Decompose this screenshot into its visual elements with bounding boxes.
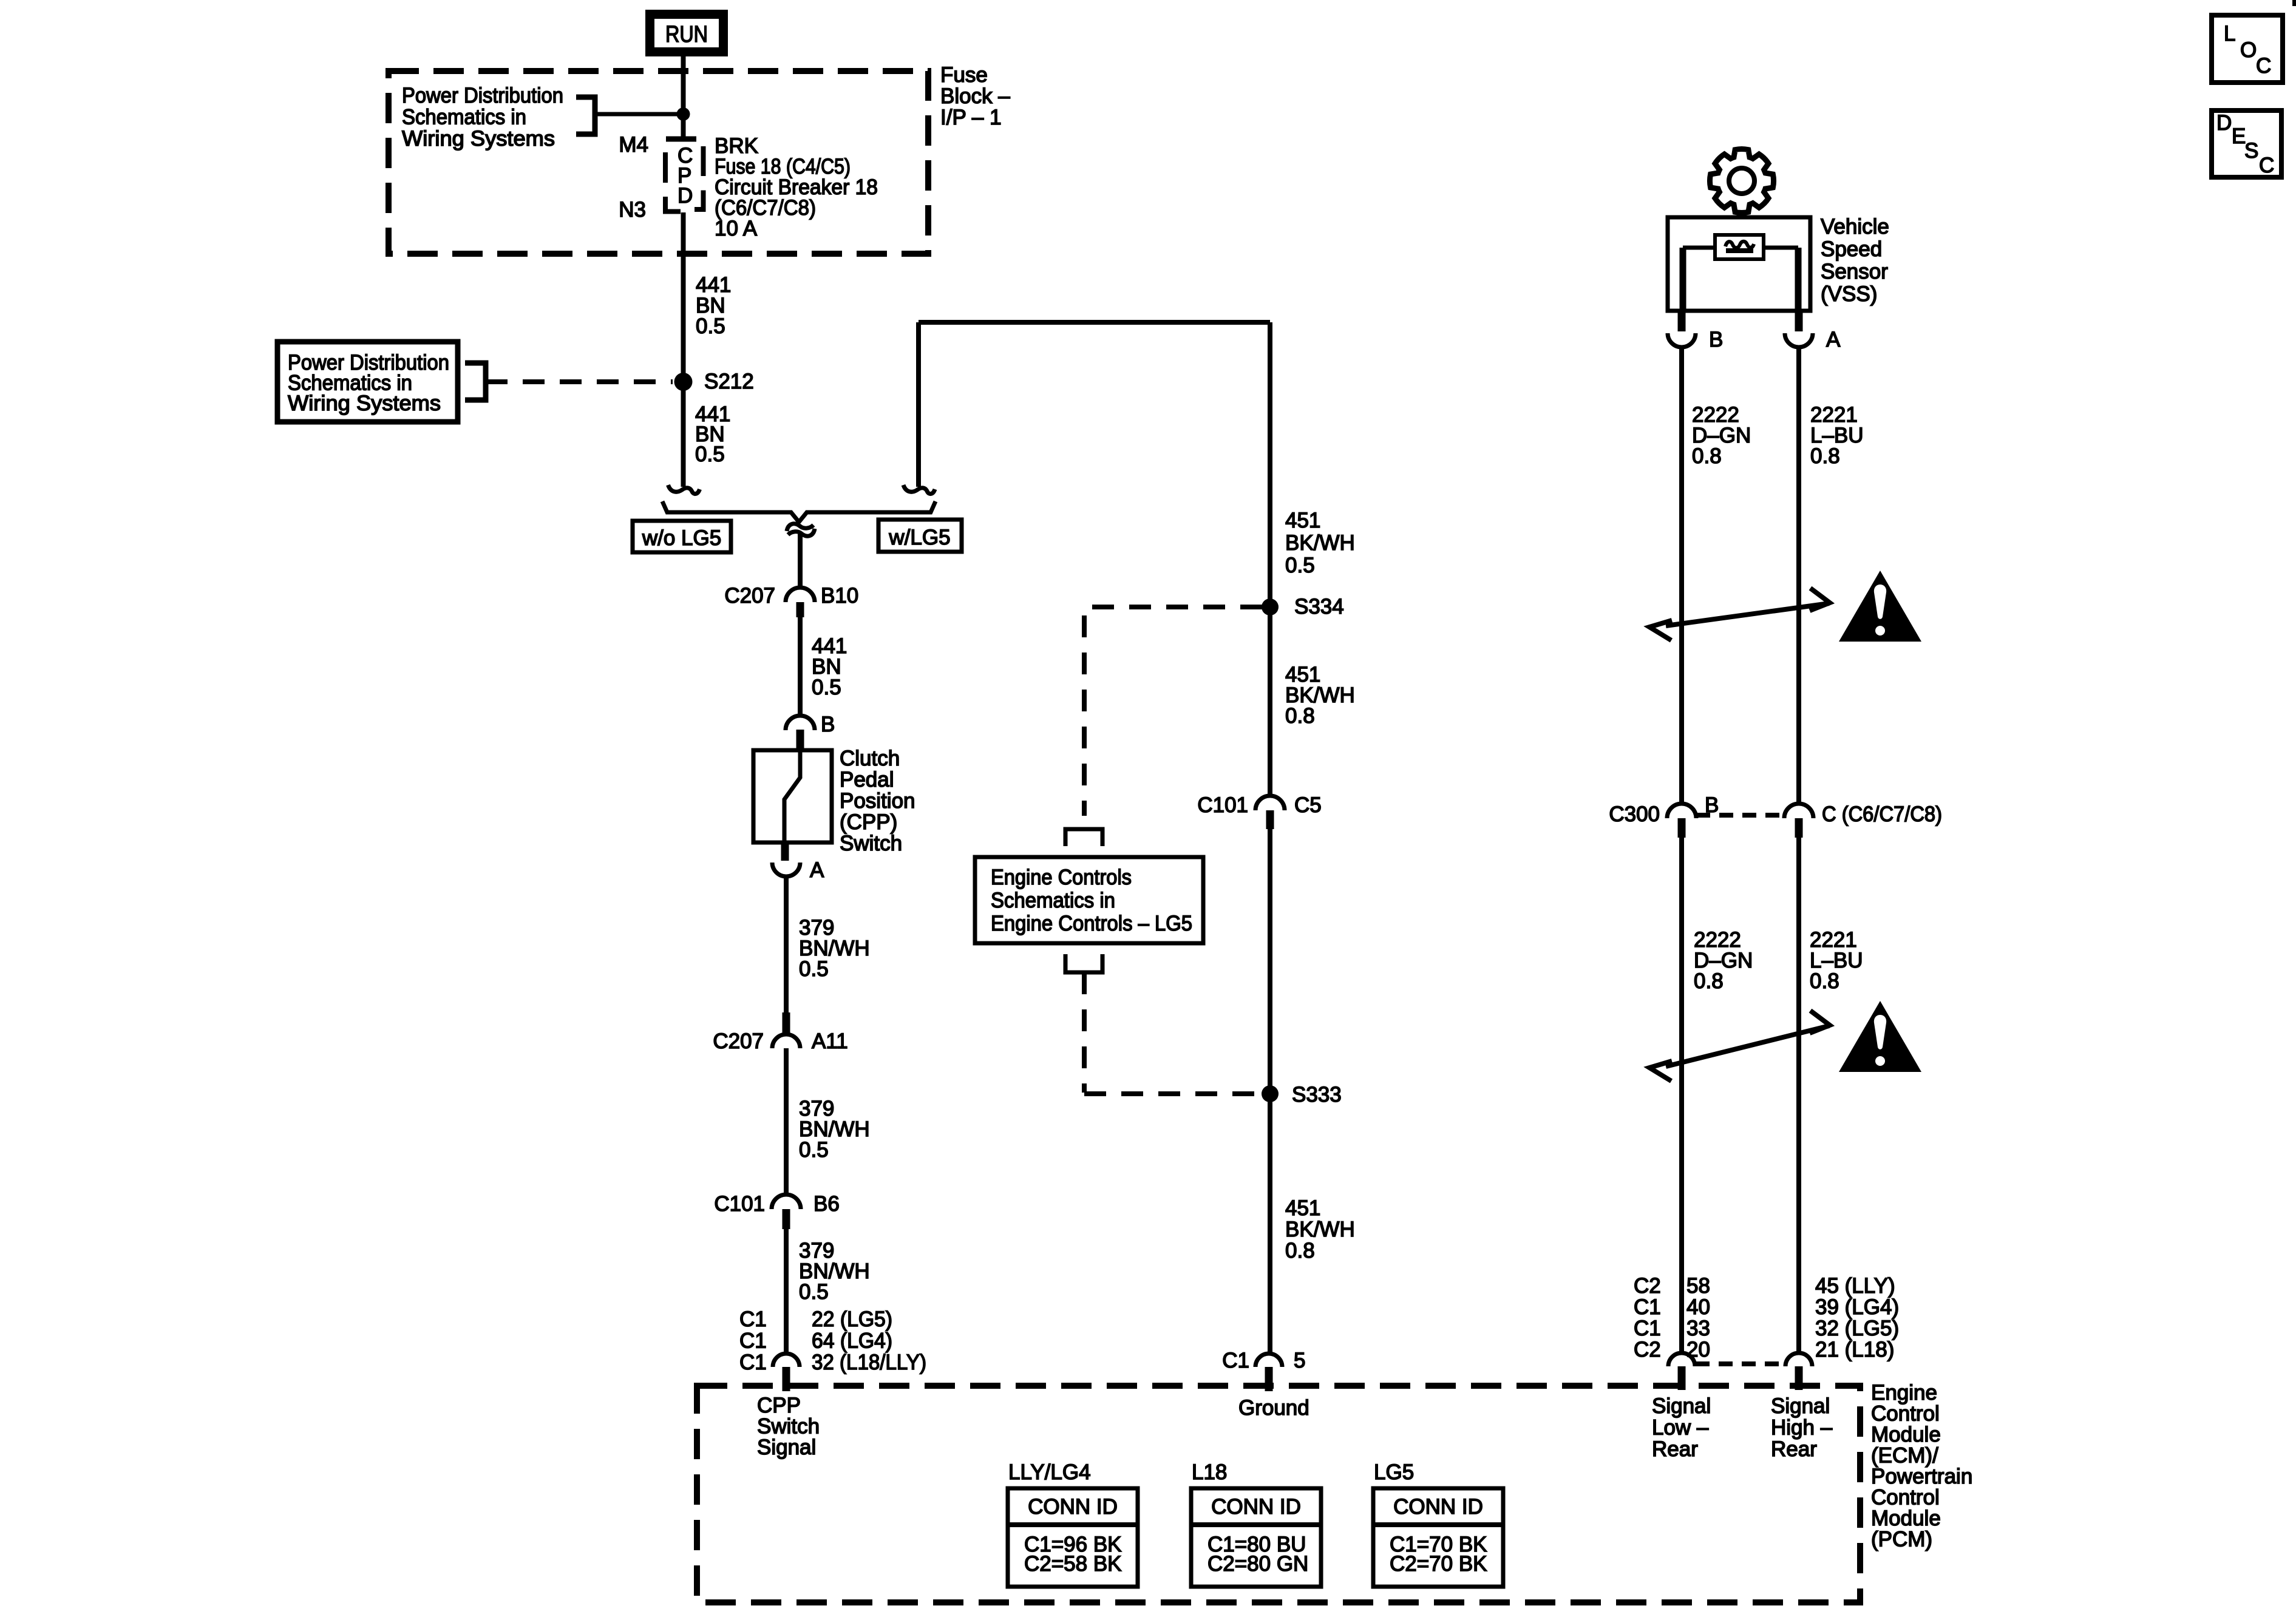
- svg-text:0.5: 0.5: [799, 957, 829, 981]
- svg-text:Rear: Rear: [1771, 1437, 1817, 1461]
- svg-text:A: A: [810, 858, 824, 882]
- svg-text:Signal: Signal: [1652, 1394, 1711, 1418]
- svg-text:w/LG5: w/LG5: [888, 526, 950, 549]
- svg-text:Powertrain: Powertrain: [1871, 1465, 1972, 1488]
- svg-text:Ground: Ground: [1238, 1396, 1309, 1420]
- svg-text:B: B: [821, 713, 835, 736]
- svg-text:Block –: Block –: [940, 84, 1010, 108]
- svg-text:CONN ID: CONN ID: [1211, 1495, 1301, 1519]
- svg-text:S333: S333: [1292, 1083, 1342, 1107]
- svg-text:C1: C1: [1634, 1317, 1661, 1340]
- svg-text:E: E: [2232, 124, 2246, 148]
- svg-text:451: 451: [1285, 509, 1320, 532]
- svg-text:A: A: [1826, 328, 1841, 351]
- svg-text:M4: M4: [619, 133, 648, 157]
- svg-text:Engine Controls – LG5: Engine Controls – LG5: [991, 912, 1192, 935]
- svg-text:0.8: 0.8: [1810, 969, 1839, 993]
- svg-text:C5: C5: [1294, 793, 1322, 817]
- svg-text:0.5: 0.5: [695, 442, 725, 466]
- svg-text:Wiring Systems: Wiring Systems: [402, 127, 555, 151]
- svg-text:0.8: 0.8: [1285, 704, 1315, 728]
- svg-text:Control: Control: [1871, 1486, 1940, 1510]
- svg-text:Switch: Switch: [840, 832, 902, 855]
- svg-text:C1: C1: [739, 1329, 767, 1352]
- svg-text:C101: C101: [714, 1192, 765, 1216]
- svg-text:C1: C1: [739, 1351, 767, 1374]
- svg-text:B: B: [1705, 793, 1719, 817]
- svg-text:N3: N3: [619, 198, 646, 222]
- svg-text:C1: C1: [1222, 1349, 1249, 1372]
- svg-text:D: D: [2216, 111, 2232, 135]
- svg-text:C: C: [2256, 54, 2271, 78]
- svg-text:(PCM): (PCM): [1871, 1528, 1932, 1551]
- svg-text:Engine: Engine: [1871, 1381, 1937, 1405]
- svg-text:C (C6/C7/C8): C (C6/C7/C8): [1822, 802, 1942, 826]
- svg-text:L18: L18: [1192, 1460, 1227, 1484]
- svg-text:(CPP): (CPP): [840, 810, 897, 834]
- svg-text:(VSS): (VSS): [1821, 282, 1877, 306]
- svg-text:C: C: [2259, 154, 2274, 177]
- svg-text:C207: C207: [724, 584, 775, 608]
- svg-text:C101: C101: [1197, 793, 1248, 817]
- svg-text:Pedal: Pedal: [840, 768, 894, 792]
- svg-text:C1: C1: [1634, 1295, 1661, 1319]
- svg-text:LG5: LG5: [1374, 1460, 1414, 1484]
- svg-text:64 (LG4): 64 (LG4): [812, 1329, 892, 1352]
- svg-text:0.5: 0.5: [1285, 554, 1315, 577]
- svg-text:CONN ID: CONN ID: [1028, 1495, 1118, 1519]
- svg-text:w/o LG5: w/o LG5: [642, 526, 721, 550]
- svg-text:Signal: Signal: [1771, 1394, 1830, 1418]
- svg-text:451: 451: [1285, 1196, 1320, 1220]
- svg-text:22 (LG5): 22 (LG5): [812, 1307, 892, 1331]
- svg-text:LLY/LG4: LLY/LG4: [1008, 1460, 1091, 1484]
- svg-text:C2: C2: [1634, 1338, 1661, 1361]
- svg-text:S: S: [2244, 139, 2258, 163]
- svg-text:39 (LG4): 39 (LG4): [1815, 1295, 1899, 1319]
- svg-text:B6: B6: [813, 1192, 840, 1216]
- svg-text:Control: Control: [1871, 1402, 1940, 1426]
- svg-text:Wiring Systems: Wiring Systems: [288, 392, 441, 415]
- svg-text:5: 5: [1294, 1349, 1305, 1372]
- svg-text:58: 58: [1686, 1274, 1710, 1298]
- svg-text:0.8: 0.8: [1694, 969, 1724, 993]
- svg-text:Speed: Speed: [1821, 237, 1882, 261]
- svg-text:0.5: 0.5: [812, 676, 841, 699]
- svg-text:Sensor: Sensor: [1821, 260, 1888, 283]
- svg-text:33: 33: [1686, 1317, 1710, 1340]
- svg-text:Schematics in: Schematics in: [991, 889, 1115, 912]
- svg-text:32 (LG5): 32 (LG5): [1815, 1317, 1899, 1340]
- svg-text:0.5: 0.5: [799, 1280, 829, 1304]
- svg-text:C2: C2: [1634, 1274, 1661, 1298]
- svg-text:Module: Module: [1871, 1507, 1941, 1530]
- svg-text:RUN: RUN: [665, 22, 708, 47]
- svg-text:(ECM)/: (ECM)/: [1871, 1444, 1938, 1468]
- svg-text:Signal: Signal: [757, 1436, 816, 1459]
- svg-text:A11: A11: [812, 1029, 848, 1053]
- svg-text:0.5: 0.5: [799, 1138, 829, 1162]
- svg-text:C1: C1: [739, 1307, 767, 1331]
- svg-text:Schematics in: Schematics in: [402, 106, 526, 129]
- svg-text:Fuse: Fuse: [940, 63, 988, 87]
- svg-text:0.8: 0.8: [1692, 444, 1722, 468]
- svg-text:BK/WH: BK/WH: [1285, 531, 1355, 555]
- svg-text:B: B: [1709, 328, 1723, 351]
- svg-text:C300: C300: [1609, 802, 1660, 826]
- svg-text:Rear: Rear: [1652, 1437, 1698, 1461]
- svg-text:Vehicle: Vehicle: [1821, 215, 1889, 239]
- svg-text:0.8: 0.8: [1810, 444, 1840, 468]
- svg-text:CONN ID: CONN ID: [1393, 1495, 1483, 1519]
- svg-text:O: O: [2240, 38, 2257, 62]
- svg-text:Power Distribution: Power Distribution: [402, 84, 563, 107]
- svg-text:D: D: [678, 184, 693, 208]
- svg-text:High –: High –: [1771, 1416, 1833, 1440]
- svg-text:Switch: Switch: [757, 1415, 820, 1439]
- svg-text:45 (LLY): 45 (LLY): [1815, 1274, 1895, 1298]
- svg-text:40: 40: [1686, 1295, 1710, 1319]
- svg-text:10 A: 10 A: [715, 217, 758, 240]
- svg-text:Module: Module: [1871, 1423, 1941, 1446]
- svg-text:BK/WH: BK/WH: [1285, 1218, 1355, 1241]
- svg-text:Low –: Low –: [1652, 1416, 1709, 1440]
- svg-text:C2=80 GN: C2=80 GN: [1207, 1552, 1308, 1576]
- svg-text:32 (L18/LLY): 32 (L18/LLY): [812, 1351, 926, 1374]
- svg-text:Position: Position: [840, 789, 915, 813]
- svg-text:S334: S334: [1294, 595, 1344, 619]
- svg-text:C207: C207: [713, 1029, 764, 1053]
- svg-text:0.5: 0.5: [696, 314, 725, 338]
- svg-text:CPP: CPP: [757, 1394, 801, 1417]
- svg-text:B10: B10: [821, 584, 858, 608]
- svg-text:21 (L18): 21 (L18): [1815, 1338, 1894, 1361]
- svg-text:0.8: 0.8: [1285, 1239, 1315, 1263]
- svg-text:L: L: [2224, 22, 2235, 46]
- svg-text:S212: S212: [704, 370, 754, 393]
- svg-text:Clutch: Clutch: [840, 747, 900, 770]
- svg-text:I/P – 1: I/P – 1: [940, 106, 1002, 129]
- svg-text:C2=70 BK: C2=70 BK: [1390, 1552, 1487, 1576]
- svg-text:C2=58 BK: C2=58 BK: [1024, 1552, 1122, 1576]
- svg-text:Engine Controls: Engine Controls: [991, 866, 1132, 889]
